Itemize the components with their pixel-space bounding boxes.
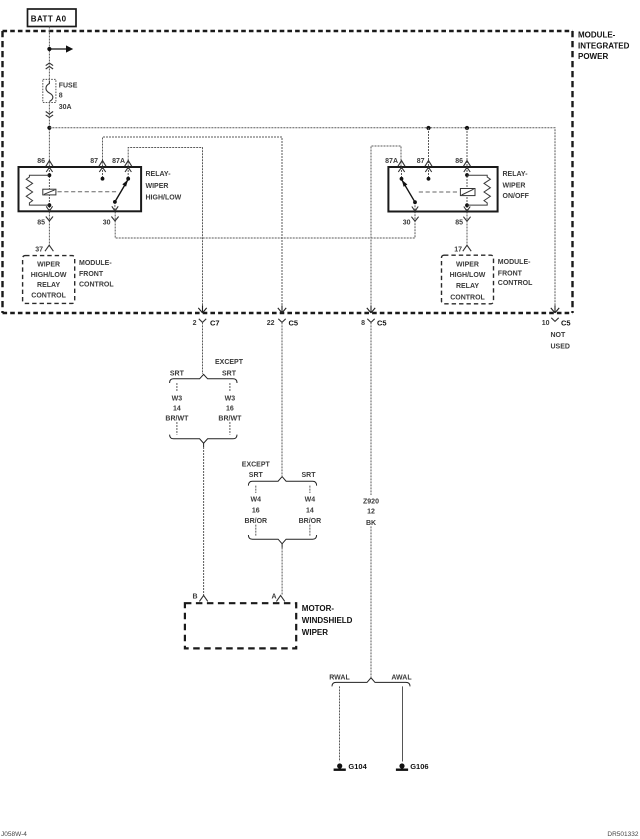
svg-text:8: 8	[361, 320, 365, 327]
svg-text:16: 16	[226, 406, 234, 413]
svg-text:EXCEPT: EXCEPT	[242, 461, 271, 468]
relay U2 coil	[460, 189, 475, 196]
svg-text:WIPER: WIPER	[503, 182, 526, 189]
pin 87 U1	[99, 161, 106, 172]
wire right relay 87 stub	[428, 128, 430, 167]
relay U2 pin 87 stub	[428, 167, 430, 179]
fuse F8 30A	[43, 79, 56, 102]
wire C5-22 down to split	[281, 322, 283, 476]
svg-text:86: 86	[455, 158, 463, 165]
relay U1 pin 87A stub	[127, 167, 129, 179]
svg-text:A: A	[271, 593, 276, 600]
svg-text:G104: G104	[348, 762, 367, 771]
relay U2 internals: coil branch	[466, 167, 468, 212]
wire Z920 12 BK	[370, 322, 372, 677]
pin 86 U1	[46, 161, 53, 172]
node dot at right relay 87	[426, 126, 430, 130]
svg-text:BATT A0: BATT A0	[31, 14, 67, 23]
wire W4 14 BR/OR	[309, 486, 311, 537]
wire to G104	[339, 686, 341, 761]
svg-text:14: 14	[173, 406, 181, 413]
svg-text:DR501332: DR501332	[607, 831, 638, 838]
svg-text:14: 14	[306, 508, 314, 515]
junction dot U1 coil top	[48, 173, 52, 177]
relay U1 internals: coil branch	[48, 167, 50, 211]
pin 85 U1	[46, 206, 53, 221]
pin 87A U1	[125, 161, 132, 172]
svg-text:30A: 30A	[59, 104, 72, 111]
connector C5 pin 8	[367, 305, 375, 313]
svg-text:85: 85	[37, 220, 45, 227]
svg-text:POWER: POWER	[578, 52, 608, 61]
svg-text:WIPER: WIPER	[37, 261, 60, 268]
wire battery feed vertical	[48, 27, 50, 168]
svg-text:WIPER: WIPER	[456, 261, 479, 268]
svg-text:EXCEPT: EXCEPT	[215, 359, 244, 366]
pin 30 U1	[111, 206, 118, 221]
connector C5 pin 10 not used	[551, 305, 559, 313]
svg-text:INTEGRATED: INTEGRATED	[578, 41, 630, 50]
svg-text:HIGH/LOW: HIGH/LOW	[146, 194, 182, 201]
wire right relay 86 stub	[466, 128, 468, 167]
wire left relay 87A to C7-2	[128, 148, 202, 309]
ground G104	[337, 763, 342, 768]
svg-text:87: 87	[90, 158, 98, 165]
pin A motor	[276, 595, 284, 601]
wire battery bus to right relay and C5-10	[49, 128, 555, 308]
brace split W4 wires	[248, 477, 316, 486]
svg-text:FUSE: FUSE	[59, 82, 78, 89]
svg-text:C5: C5	[377, 318, 387, 327]
pin 87 U2	[425, 161, 432, 172]
svg-text:WIPER: WIPER	[146, 183, 169, 190]
svg-text:30: 30	[403, 220, 411, 227]
svg-text:HIGH/LOW: HIGH/LOW	[31, 272, 67, 279]
svg-text:12: 12	[367, 509, 375, 516]
svg-text:CONTROL: CONTROL	[79, 282, 114, 289]
svg-text:RELAY: RELAY	[37, 282, 60, 289]
svg-text:W4: W4	[305, 496, 316, 503]
svg-text:37: 37	[35, 247, 43, 254]
brace merge W4 wires	[248, 535, 316, 544]
wire right relay 85 down	[466, 212, 468, 248]
junction dot U2 coil top	[465, 173, 469, 177]
svg-text:NOT: NOT	[551, 332, 567, 339]
wire to motor pin B	[203, 447, 205, 595]
relay U1 pin 87 stub	[102, 167, 104, 179]
svg-text:87A: 87A	[385, 158, 398, 165]
svg-text:17: 17	[454, 247, 462, 254]
svg-text:BR/OR: BR/OR	[245, 518, 268, 525]
svg-text:16: 16	[252, 508, 260, 515]
svg-text:CONTROL: CONTROL	[31, 292, 66, 299]
pin 30 U2	[411, 207, 418, 222]
relay U1 pin 30 stub	[114, 202, 116, 211]
wire W3 14 BR/WT	[176, 383, 178, 435]
svg-text:C5: C5	[289, 318, 299, 327]
brace split W3 wires	[170, 374, 237, 383]
svg-text:BR/WT: BR/WT	[165, 416, 189, 423]
svg-text:W4: W4	[251, 496, 262, 503]
brace merge W3 wires	[170, 435, 237, 444]
svg-text:FRONT: FRONT	[498, 271, 523, 278]
svg-text:BR/OR: BR/OR	[299, 518, 322, 525]
svg-text:AWAL: AWAL	[391, 675, 412, 682]
junction dot U2 coil bottom	[465, 203, 469, 207]
resistor in relay U1	[26, 175, 49, 205]
svg-text:86: 86	[37, 158, 45, 165]
wire W3 16 BR/WT	[229, 383, 231, 435]
svg-text:G106: G106	[410, 762, 428, 771]
pin 86 U2	[464, 161, 471, 172]
connector C7 pin 2	[198, 305, 206, 313]
svg-text:J058W-4: J058W-4	[1, 831, 27, 838]
brace split ground wires	[332, 678, 410, 687]
svg-text:SRT: SRT	[249, 472, 264, 479]
svg-text:Z920: Z920	[363, 498, 379, 505]
svg-text:B: B	[193, 593, 198, 600]
node dot at right relay 86	[465, 126, 469, 130]
svg-text:BR/WT: BR/WT	[218, 416, 242, 423]
svg-text:SRT: SRT	[170, 370, 185, 377]
svg-text:MODULE-: MODULE-	[498, 259, 531, 266]
svg-text:FRONT: FRONT	[79, 271, 104, 278]
wire pin30 bus between relays	[115, 212, 415, 239]
relay U2 pin 87A stub	[401, 167, 403, 179]
relay U2 switch blade	[402, 180, 415, 203]
node MOTOR-WINDSHIELD WIPER	[185, 603, 296, 648]
resistor in relay U2	[467, 175, 490, 205]
pin 87A U2	[398, 161, 405, 172]
svg-text:W3: W3	[225, 395, 236, 402]
svg-text:WINDSHIELD: WINDSHIELD	[302, 616, 353, 625]
svg-text:MOTOR-: MOTOR-	[302, 604, 335, 613]
junction dot U1 coil bottom	[48, 203, 52, 207]
svg-text:RELAY-: RELAY-	[503, 171, 529, 178]
svg-text:MODULE-: MODULE-	[79, 260, 112, 267]
pin B motor	[199, 595, 207, 601]
wire left relay 87 to C5-22	[103, 137, 283, 308]
svg-text:RELAY-: RELAY-	[146, 171, 172, 178]
wire to motor pin A	[281, 548, 283, 596]
node junction below fuse	[47, 126, 51, 130]
svg-text:BK: BK	[366, 520, 376, 527]
svg-text:SRT: SRT	[302, 472, 317, 479]
relay U1 RELAY-WIPER HIGH/LOW box	[19, 167, 142, 211]
node BATT A0	[28, 9, 77, 27]
svg-text:ON/OFF: ON/OFF	[503, 193, 530, 200]
svg-text:MODULE-: MODULE-	[578, 31, 616, 40]
pin 85 U2	[463, 207, 470, 222]
wire right relay 87A to C5-8	[371, 146, 401, 308]
relay U1 coil	[43, 189, 56, 195]
svg-text:C5: C5	[561, 318, 571, 327]
svg-text:2: 2	[193, 320, 197, 327]
module outer dashed border	[3, 30, 573, 32]
wire C7-2 down to split	[202, 322, 204, 374]
relay U2 RELAY-WIPER ON/OFF box	[388, 167, 497, 212]
connector C5 pin 22	[278, 305, 286, 313]
svg-text:30: 30	[103, 220, 111, 227]
node WIPER HIGH/LOW RELAY CONTROL left	[23, 256, 75, 304]
node WIPER HIGH/LOW RELAY CONTROL right	[442, 255, 494, 304]
svg-text:CONTROL: CONTROL	[498, 280, 533, 287]
svg-text:87A: 87A	[112, 158, 125, 165]
wire left relay 85 down	[48, 212, 50, 248]
svg-text:SRT: SRT	[222, 370, 237, 377]
svg-text:8: 8	[59, 92, 63, 99]
ground G106	[399, 763, 404, 768]
svg-text:CONTROL: CONTROL	[450, 295, 485, 302]
svg-text:HIGH/LOW: HIGH/LOW	[450, 272, 486, 279]
svg-text:10: 10	[542, 320, 550, 327]
svg-text:87: 87	[417, 158, 425, 165]
connector chevrons below fuse	[46, 112, 53, 118]
svg-text:W3: W3	[172, 395, 183, 402]
svg-text:RWAL: RWAL	[329, 675, 350, 682]
svg-text:RELAY: RELAY	[456, 283, 479, 290]
relay U1 switch blade	[115, 180, 128, 202]
svg-text:C7: C7	[210, 318, 220, 327]
svg-text:22: 22	[267, 320, 275, 327]
connector chevrons above fuse	[46, 63, 53, 69]
svg-text:USED: USED	[551, 343, 570, 350]
svg-text:85: 85	[455, 220, 463, 227]
wire to G106	[402, 686, 404, 761]
svg-text:WIPER: WIPER	[302, 628, 328, 637]
relay U2 pin 30 stub	[414, 202, 416, 211]
node junction dot with arrow tap	[47, 47, 51, 51]
wire W4 16 BR/OR	[255, 486, 257, 537]
